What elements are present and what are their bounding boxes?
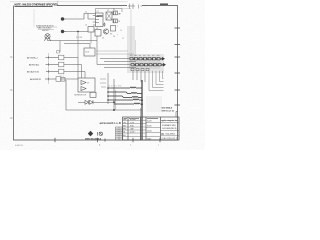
connector J1 pin 1 <box>61 18 66 21</box>
inductor L5 <box>114 103 142 104</box>
resistor R2 <box>113 19 118 23</box>
connector cluster J2 row 2 <box>131 64 163 66</box>
wire J2 stubs down <box>133 71 145 82</box>
wire from Y1 <box>48 39 61 41</box>
ferrite FB1 <box>56 77 61 82</box>
value labels top circuit <box>85 9 121 40</box>
wire G2 out <box>64 65 82 79</box>
capacitor C7 <box>61 78 65 82</box>
junction dot shield <box>141 99 143 101</box>
connector cluster labels <box>130 54 160 56</box>
wire G1 out <box>64 58 78 79</box>
IC U4 <box>95 30 101 37</box>
junction dots coil bus <box>107 87 109 101</box>
wire junction down <box>77 32 79 58</box>
faint scan line top-left <box>33 9 35 27</box>
sheet reference text <box>162 106 175 112</box>
title block title <box>162 124 177 130</box>
ferrite FB2 <box>90 92 96 97</box>
transistor Q1 <box>103 29 108 34</box>
wire G3 out <box>64 72 85 79</box>
IC U1 <box>93 13 103 27</box>
IC U2 <box>106 12 112 20</box>
inductor L4 <box>108 99 142 100</box>
diode CR2 <box>90 100 94 104</box>
wire feeds J2 <box>97 59 136 68</box>
title header band <box>124 118 159 120</box>
wire shield second <box>139 108 141 140</box>
capacitor C9 <box>57 51 60 54</box>
revision table <box>116 127 123 140</box>
title block number <box>162 132 176 136</box>
bus bends right <box>149 71 164 91</box>
gate G1 <box>59 55 64 60</box>
wire lower bus B <box>64 44 90 49</box>
wire pin2 to U3 <box>66 31 88 33</box>
diode CR1 <box>85 100 89 104</box>
wire FB1 out <box>61 78 78 80</box>
wire pin1 to U1 <box>66 14 96 20</box>
inductor L1 <box>108 87 142 88</box>
wire U3 down <box>90 32 92 44</box>
junction dot A <box>113 101 115 103</box>
wire stubs near loop <box>100 79 106 87</box>
crystal Y1 <box>44 34 50 41</box>
scan smudge over connector area <box>127 26 164 112</box>
IC U3 <box>88 27 94 33</box>
diode end marks <box>162 57 165 61</box>
title block frame <box>123 117 180 140</box>
title block tiny text <box>123 120 152 141</box>
wire AB7 <box>46 57 59 59</box>
gate G2 <box>59 62 64 67</box>
wire pair to connector cluster <box>96 51 134 54</box>
note annotation block <box>36 25 57 32</box>
approved text <box>100 122 122 125</box>
inductor L2 <box>108 92 142 94</box>
capacitor C1 <box>103 23 106 27</box>
stamp symbol <box>98 132 103 136</box>
resistor R3 <box>111 26 116 32</box>
bus tick marks <box>48 53 50 84</box>
junction dot B <box>113 109 115 111</box>
wire ground loop <box>66 79 142 110</box>
title block left rows <box>123 120 180 136</box>
wire loop second <box>115 90 117 110</box>
connector cluster J2 row 1 <box>130 58 162 60</box>
gate G3 <box>59 69 64 74</box>
label pin numbers <box>117 26 124 41</box>
IC U5 <box>78 78 95 92</box>
wire AB4 <box>45 78 56 80</box>
connector J1 pin 2 <box>61 30 66 33</box>
junction dot pin2 <box>77 31 79 33</box>
stamp diamond <box>88 131 93 137</box>
wire lower bus A <box>60 41 97 53</box>
wire through diodes <box>78 101 114 103</box>
inductor L3 <box>108 96 142 98</box>
border frame <box>14 4 181 142</box>
wire shield collector <box>141 80 143 140</box>
buffer box B1 <box>84 48 95 56</box>
wire AB5 <box>46 71 59 73</box>
wire AB6 <box>46 64 59 66</box>
coil bus vertical <box>107 73 109 104</box>
connector cluster J2 row 3 <box>131 69 149 71</box>
wire vertical to connector rows <box>96 36 98 65</box>
border notch <box>176 112 178 118</box>
sheet note text <box>10 1 128 7</box>
resistor R1 <box>113 11 118 15</box>
wire top bus <box>96 9 123 14</box>
